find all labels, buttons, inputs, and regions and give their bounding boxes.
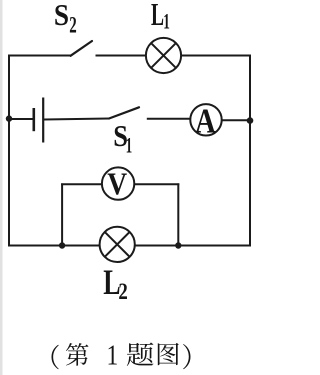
node: junction voltmeter-right / bottom wire: [175, 242, 181, 248]
battery cell: short negative plate: [32, 108, 35, 131]
caption close paren ）: [183, 344, 190, 369]
svg-text:1: 1: [163, 9, 170, 33]
caption open paren （: [51, 345, 58, 370]
wire: bottom of outer loop: [8, 245, 251, 247]
wire: left vertical (outer loop): [8, 55, 10, 247]
label L2: [103, 262, 128, 304]
wire: top right segment from L1 to right vertical: [180, 55, 251, 57]
wire: middle branch left of battery: [9, 118, 34, 120]
svg-text:2: 2: [118, 278, 127, 304]
wire: top segment from S2 contact to lamp L1: [96, 55, 148, 57]
caption char 题: [127, 343, 154, 366]
label L1: [151, 0, 170, 33]
label S2: [54, 0, 77, 38]
node: junction voltmeter-left / bottom wire: [59, 242, 65, 248]
wire: top left segment to switch S2: [8, 55, 71, 57]
wire: voltmeter branch right vertical: [177, 183, 179, 246]
wire: voltmeter branch left vertical: [61, 183, 63, 246]
switch S2 blade (open): [71, 41, 93, 56]
node: junction ammeter wire / right vertical: [247, 117, 254, 124]
scan shadow left edge: [0, 0, 3, 375]
wire: S1 contact to ammeter: [147, 118, 191, 120]
lamp L2 (circle with X): [100, 227, 135, 262]
ammeter A: [190, 101, 221, 140]
svg-text:A: A: [195, 101, 216, 140]
node: junction battery branch / left vertical: [6, 115, 12, 121]
wire: voltmeter branch top right: [134, 183, 179, 185]
svg-text:L: L: [151, 0, 164, 32]
svg-text:V: V: [107, 166, 127, 201]
lamp L1 (circle with X): [146, 38, 181, 73]
svg-text:1: 1: [107, 339, 119, 371]
switch S1 blade (open): [109, 107, 139, 118]
caption char 图: [158, 343, 179, 365]
svg-text:2: 2: [69, 13, 76, 38]
svg-text:S: S: [54, 0, 69, 33]
caption: （第 1 题图）: [51, 339, 190, 371]
wire: right vertical (outer loop): [249, 55, 251, 247]
wire: battery to switch S1 pivot: [44, 119, 109, 120]
voltmeter V: [102, 166, 134, 201]
svg-text:1: 1: [126, 133, 133, 157]
label S1: [113, 119, 132, 157]
caption char 第: [66, 343, 89, 366]
battery cell: long positive plate: [42, 98, 44, 143]
wire: ammeter to right vertical: [222, 119, 251, 121]
wire: voltmeter branch top left: [61, 183, 103, 185]
